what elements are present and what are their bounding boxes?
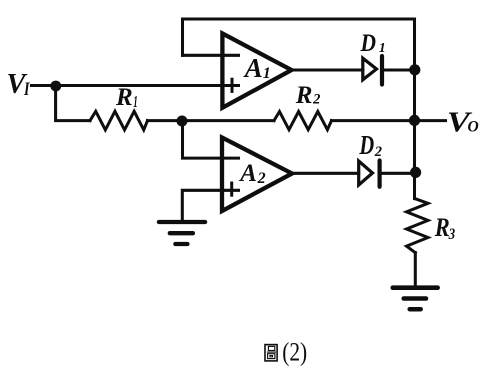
- svg-text:2: 2: [374, 144, 382, 160]
- svg-text:2: 2: [312, 91, 320, 107]
- svg-text:R: R: [295, 82, 313, 109]
- svg-text:1: 1: [133, 92, 138, 111]
- svg-text:D: D: [360, 28, 376, 57]
- svg-text:1: 1: [379, 41, 386, 56]
- svg-text:A: A: [243, 53, 263, 83]
- svg-text:O: O: [468, 119, 479, 136]
- svg-text:1: 1: [263, 65, 271, 82]
- svg-text:R: R: [115, 84, 133, 111]
- svg-text:(2): (2): [282, 336, 307, 366]
- svg-text:3: 3: [448, 226, 455, 243]
- svg-text:I: I: [23, 79, 30, 100]
- svg-text:2: 2: [257, 170, 266, 187]
- svg-text:A: A: [238, 160, 257, 187]
- svg-text:R: R: [434, 213, 450, 242]
- svg-text:D: D: [359, 130, 375, 160]
